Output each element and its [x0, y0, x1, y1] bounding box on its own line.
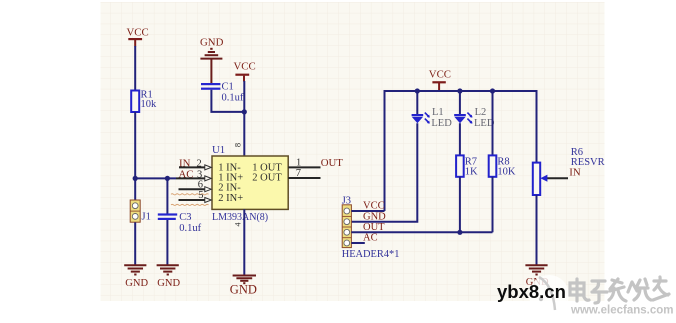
svg-text:L1: L1: [432, 107, 444, 118]
svg-text:GND: GND: [200, 37, 224, 49]
svg-text:LM393AN(8): LM393AN(8): [212, 212, 268, 223]
char 2: [592, 281, 607, 303]
watermark logo circle: [529, 275, 569, 315]
svg-text:0.1uf: 0.1uf: [179, 223, 201, 234]
wire rail to L1: [416, 91, 418, 115]
svg-text:www.elecfans.com: www.elecfans.com: [570, 305, 673, 317]
wire C3 to ground: [166, 220, 168, 265]
svg-text:2 OUT: 2 OUT: [252, 172, 282, 183]
resistor R7: [456, 155, 478, 177]
pin 5 wire: [179, 190, 212, 203]
capacitor C3: [158, 212, 202, 234]
wire C1 to pin8 net: [211, 90, 244, 112]
J3 pin4 wire (net AC): [351, 242, 364, 244]
svg-text:10K: 10K: [497, 167, 516, 178]
svg-text:C3: C3: [179, 212, 191, 223]
svg-text:VCC: VCC: [363, 201, 385, 212]
wire R7 to OUT net: [459, 177, 461, 233]
svg-text:10k: 10k: [141, 99, 158, 110]
potentiometer R6: [533, 147, 605, 195]
svg-text:OUT: OUT: [363, 222, 385, 233]
wire L1 to J3 GND row: [351, 123, 417, 222]
svg-text:VCC: VCC: [234, 61, 256, 73]
svg-text:IN: IN: [569, 167, 581, 179]
compile-mark squiggle 2: [171, 204, 209, 205]
svg-text:GND: GND: [125, 278, 148, 289]
svg-text:0.1uf: 0.1uf: [222, 93, 244, 104]
schematic sheet: [101, 2, 605, 301]
junction at C3 branch: [165, 176, 170, 181]
svg-text:C1: C1: [222, 82, 234, 93]
wire VCC to R1: [134, 46, 136, 91]
wire J1 to ground: [134, 222, 136, 265]
ground symbol GND (under R6): [525, 265, 547, 274]
char 4: [628, 279, 651, 300]
LED L2: [454, 107, 495, 129]
watermark chinese characters (stylized): [570, 277, 669, 303]
wire R6 to ground: [536, 195, 538, 265]
connector J1: [130, 200, 151, 223]
wire U1 pin 4 to ground: [243, 209, 245, 275]
J3 pin3 wire (net OUT): [351, 231, 492, 233]
connector J3: [342, 195, 400, 260]
J3 pin1 wire (net VCC): [351, 210, 384, 212]
VCC rail wire: [385, 91, 537, 211]
pin 2 wire (net IN): [179, 157, 211, 170]
svg-text:L2: L2: [475, 107, 487, 118]
pin 3 wire (net AC): [176, 168, 211, 181]
svg-text:J1: J1: [142, 212, 151, 223]
wire L2 to R7: [459, 123, 461, 155]
resistor R8: [489, 155, 516, 177]
ground symbol GND (top, above C1, inverted): [200, 37, 224, 84]
wire C3 branch down: [166, 178, 168, 213]
char 1: [570, 279, 589, 301]
junction rail/L2: [457, 88, 462, 93]
junction rail/R8: [490, 88, 495, 93]
svg-text:VCC: VCC: [127, 27, 149, 39]
char 3: [609, 279, 626, 301]
pin 6 wire: [179, 180, 212, 192]
wire R1 to node AC: [134, 112, 136, 200]
svg-text:GND: GND: [157, 278, 180, 289]
wire rail to L2: [459, 91, 461, 115]
junction R7/OUT wire: [457, 230, 462, 235]
wire rail to R8: [492, 91, 494, 155]
svg-text:LED: LED: [431, 118, 452, 129]
junction rail/L1: [415, 88, 420, 93]
svg-text:1K: 1K: [465, 167, 478, 178]
power VCC symbol (middle): [234, 61, 256, 82]
svg-text:U1: U1: [212, 144, 225, 156]
svg-text:GND: GND: [230, 283, 257, 297]
ground symbol GND (under U1): [233, 276, 256, 284]
compile-mark squiggle 1: [171, 194, 209, 195]
capacitor C1: [201, 82, 244, 104]
junction at R1/AC node: [133, 176, 138, 181]
wire R8 down to OUT net: [492, 177, 494, 233]
power VCC symbol (right rail): [429, 69, 451, 92]
svg-text:HEADER4*1: HEADER4*1: [342, 249, 400, 260]
svg-text:4: 4: [234, 223, 243, 227]
svg-text:VCC: VCC: [429, 69, 451, 81]
svg-text:GND: GND: [363, 211, 386, 222]
svg-text:8: 8: [233, 143, 243, 147]
char 5: [653, 277, 669, 300]
svg-text:AC: AC: [363, 232, 378, 243]
op-amp U1 LM393 body: [212, 144, 288, 223]
wire VCC to U1 pin 8: [243, 81, 245, 156]
LED L1: [412, 107, 453, 129]
svg-text:ybx8.cn: ybx8.cn: [497, 281, 566, 302]
svg-text:2 IN+: 2 IN+: [218, 193, 243, 204]
ground symbol GND (under C3): [157, 265, 179, 274]
pin 7 wire: [288, 168, 320, 179]
wire node AC horizontal to U1 pin 3: [135, 177, 176, 179]
power VCC symbol (left, net VCC): [127, 27, 149, 47]
svg-text:OUT: OUT: [321, 157, 344, 169]
pin 1 wire (net OUT): [288, 157, 343, 169]
resistor R1: [131, 90, 157, 113]
ground symbol GND (under J1): [124, 265, 146, 274]
junction C1/VCC-pin8: [242, 109, 247, 114]
